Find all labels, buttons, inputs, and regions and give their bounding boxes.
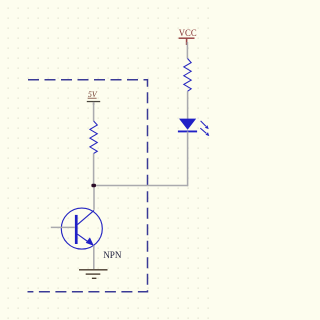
wire junction to LED branch [94, 185, 188, 187]
power port VCC [179, 28, 197, 45]
wire 5V stem [93, 102, 95, 121]
svg-text:NPN: NPN [103, 250, 121, 261]
pin Q1 base [51, 226, 75, 228]
wire VCC to R2 [186, 42, 188, 59]
wire R2 to LED [187, 91, 189, 119]
wire R1 to junction [93, 154, 95, 186]
ground [79, 270, 108, 279]
LED D1 [178, 119, 209, 137]
resistor R2 [184, 59, 191, 92]
transistor Q1 [61, 208, 102, 249]
node junction dot [91, 184, 96, 187]
dashed outline box [28, 80, 148, 292]
wire LED to junction row [187, 131, 189, 186]
power port 5V [87, 90, 100, 105]
svg-text:VCC: VCC [179, 28, 197, 38]
resistor R1 [90, 121, 97, 154]
pin Q1 emitter to ground [93, 246, 95, 270]
wire junction to Q1 collector [93, 186, 95, 210]
